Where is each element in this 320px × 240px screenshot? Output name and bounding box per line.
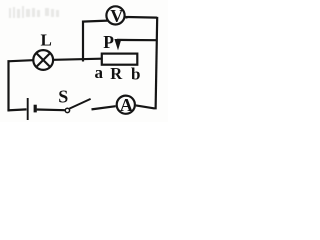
wire: lamp to rheostat terminal a (54, 59, 102, 60)
wire: battery to switch (37, 108, 65, 111)
rheostat R body (102, 54, 138, 65)
wire: top-right to voltmeter (125, 16, 156, 19)
battery short plate (34, 105, 37, 113)
svg-text:V: V (110, 6, 123, 26)
wire: slider to right vertical (117, 39, 157, 41)
svg-text:L: L (41, 31, 52, 50)
svg-text:A: A (120, 95, 133, 115)
lamp L (circle with X) (33, 50, 53, 70)
wire: switch to ammeter (92, 106, 116, 109)
wire: voltmeter left vertical down to main wire (82, 21, 84, 62)
wire: bottom-left to battery (8, 109, 27, 110)
switch S pivot circle (65, 108, 69, 112)
wire: top-left horizontal (battery left riser to lamp) (8, 60, 33, 61)
watermark faint text bleed-through (9, 6, 59, 18)
svg-text:P: P (103, 32, 114, 52)
svg-text:b: b (131, 64, 140, 83)
voltmeter V circle (106, 6, 124, 24)
wire: ammeter to bottom-right corner (136, 105, 155, 108)
svg-text:a: a (95, 63, 104, 82)
battery long plate (27, 98, 29, 120)
slider arrow P (filled triangle) (114, 39, 121, 50)
wire: voltmeter left lead (82, 21, 108, 22)
svg-text:R: R (110, 64, 123, 83)
wire: right vertical (156, 17, 158, 110)
wire: left vertical (7, 60, 9, 111)
switch lever (69, 99, 90, 109)
ammeter A circle (117, 96, 135, 114)
svg-text:S: S (58, 86, 68, 106)
